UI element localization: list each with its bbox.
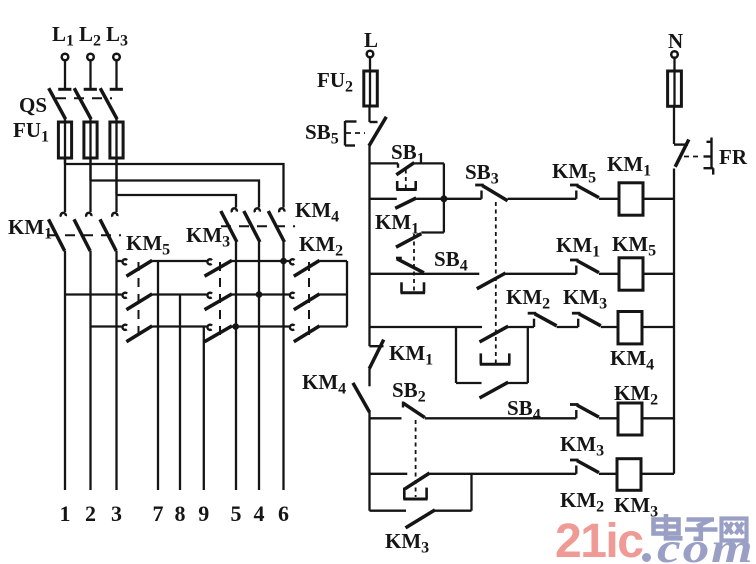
label KM2 aux (rung3) bbox=[506, 285, 550, 313]
contact KM1 aux (rail) bbox=[369, 340, 383, 369]
label KM1 (seal) bbox=[375, 210, 419, 238]
fuse FU2 bbox=[364, 71, 378, 106]
terminal L2 bbox=[84, 54, 97, 90]
label KM5 aux (rung1) bbox=[552, 159, 596, 187]
coil KM5 bbox=[619, 258, 643, 290]
wire N rail above FR bbox=[673, 106, 675, 144]
wire terminal 9 column bbox=[203, 327, 205, 491]
label SB3 bbox=[465, 160, 499, 188]
wire SB1 to seal node bbox=[414, 162, 444, 164]
wire SB3-3 to KM2 aux bbox=[508, 326, 534, 328]
wire C3 tap to KM5 pole1 bbox=[117, 260, 122, 262]
junction R3 x terminal-5 column bbox=[232, 323, 239, 330]
SB2 linkage bbox=[415, 420, 417, 497]
watermark dianziwang bbox=[654, 514, 747, 541]
label SB5 bbox=[305, 120, 339, 148]
svg-text:FR: FR bbox=[719, 145, 748, 169]
wire KM2 aux to coil KM3 bbox=[599, 473, 617, 475]
wire KM2 aux to KM3 aux bbox=[557, 326, 579, 328]
svg-text:com: com bbox=[657, 525, 755, 564]
label KM3 (power) bbox=[186, 223, 230, 251]
contact KM3 aux (rung4) bbox=[570, 405, 599, 419]
wire KM3 aux to coil KM4 bbox=[601, 326, 618, 328]
label QS bbox=[19, 93, 47, 117]
left rail lower bbox=[368, 412, 370, 511]
contact KM1 aux (seal) bbox=[395, 198, 416, 208]
label coil KM5 bbox=[612, 232, 656, 260]
wire rung1 from rail bbox=[370, 198, 397, 200]
svg-text:QS: QS bbox=[19, 93, 47, 117]
terminal label 3 bbox=[111, 501, 122, 526]
terminal label 9 bbox=[198, 501, 209, 526]
star-point bus bbox=[346, 261, 348, 327]
right rail bbox=[673, 169, 675, 474]
label SB1 bbox=[391, 140, 425, 168]
thermal relay FR (NC) bbox=[674, 138, 713, 175]
svg-text:6: 6 bbox=[278, 501, 289, 526]
coil KM4 bbox=[618, 312, 642, 344]
wire SB3-2 to KM1 aux bbox=[506, 273, 577, 275]
contactor KM3 pole 2 bbox=[205, 293, 233, 310]
fuse FU1 pole 1 bbox=[58, 119, 71, 164]
wire C2 to KM4 mid column bbox=[91, 158, 260, 208]
button SB3 contact 1 bbox=[475, 185, 507, 201]
label L1 L2 L3 bbox=[52, 22, 128, 50]
svg-text:9: 9 bbox=[198, 501, 209, 526]
label FU2 bbox=[317, 68, 353, 96]
contactor KM3 pole 3 bbox=[205, 325, 233, 342]
terminal L1 bbox=[58, 54, 71, 90]
button SB1 (NO) bbox=[396, 163, 417, 190]
contactor KM2 pole 3 bbox=[290, 325, 320, 342]
wire bypass bottom left bbox=[456, 382, 482, 384]
contact KM4 aux (rail) bbox=[353, 383, 370, 412]
junction R2 x terminal-4 column bbox=[256, 291, 263, 298]
button SB3 contact 3 bbox=[480, 326, 509, 342]
wire terminal 3 column bbox=[115, 251, 117, 490]
label KM2 aux (rung5) bbox=[560, 488, 604, 516]
label KM1 (power) bbox=[8, 215, 52, 243]
fuse FU1 pole 3 bbox=[110, 119, 123, 164]
KM5 linkage bbox=[138, 262, 140, 342]
label KM4 (power) bbox=[295, 198, 339, 226]
contact KM3 aux (rung3) bbox=[572, 313, 601, 327]
svg-text:3: 3 bbox=[111, 501, 122, 526]
label KM3 aux (rung4) bbox=[560, 432, 604, 460]
wire coil KM5 to N rail bbox=[643, 273, 674, 275]
svg-text:7: 7 bbox=[153, 501, 164, 526]
contact KM3 aux (seal) bbox=[406, 510, 436, 528]
wire KM3 seal to riser bbox=[435, 510, 472, 512]
svg-text:21ic: 21ic bbox=[555, 515, 643, 564]
wire rung5 to KM2 aux bbox=[430, 473, 577, 475]
contactor KM2 pole 1 bbox=[290, 259, 320, 276]
button SB5 (NC, in rail) bbox=[345, 117, 386, 146]
button SB4 contact (NO) bbox=[480, 382, 509, 398]
label coil KM4 bbox=[610, 346, 654, 374]
KM4 linkage bbox=[221, 225, 295, 227]
contact KM5 aux (rung1) bbox=[570, 185, 599, 199]
wire bypass right riser bbox=[527, 327, 529, 383]
contact KM2 aux (rung5) bbox=[570, 460, 599, 474]
label L bbox=[364, 28, 378, 52]
button SB4 (NC) bbox=[396, 234, 425, 293]
wire C1 tap to KM5 pole2 bbox=[65, 293, 122, 295]
terminal label 8 bbox=[175, 501, 186, 526]
contactor KM4 main pole 3 bbox=[268, 208, 284, 242]
watermark 21ic bbox=[555, 515, 643, 564]
contactor KM2 pole 2 bbox=[290, 293, 320, 310]
svg-text:2: 2 bbox=[85, 501, 96, 526]
wire rung4 from rail bbox=[370, 417, 402, 419]
label KM3 (seal) bbox=[385, 529, 429, 557]
contactor KM4 main pole 1 bbox=[221, 208, 237, 242]
wire SB1 branch from rail bbox=[370, 162, 399, 164]
wire R1 KM3 to KM2 bbox=[232, 260, 289, 262]
contactor KM5 pole 2 bbox=[123, 293, 153, 310]
wire KM3 aux to coil KM2 bbox=[599, 417, 618, 419]
terminal N (control) bbox=[671, 51, 678, 71]
wire R2 KM2 to star bus bbox=[320, 293, 347, 295]
contactor KM5 pole 1 bbox=[123, 259, 153, 276]
svg-text:N: N bbox=[668, 29, 683, 53]
wire R2 KM5 to KM3 bbox=[152, 293, 206, 295]
terminal label 4 bbox=[254, 501, 265, 526]
wire bypass left drop bbox=[455, 327, 457, 383]
fuse FU (N side) bbox=[668, 71, 682, 106]
wire seal node vertical bbox=[443, 163, 445, 232]
wire rail below FU2 bbox=[368, 106, 370, 122]
wire coil KM4 to N rail bbox=[642, 326, 674, 328]
coil KM3 bbox=[617, 459, 641, 491]
wire R3 KM5 to KM3 bbox=[152, 325, 206, 327]
terminal label 2 bbox=[85, 501, 96, 526]
wire KM1 aux to coil KM5 bbox=[599, 273, 619, 275]
svg-text:L: L bbox=[364, 28, 378, 52]
wire seal riser bbox=[470, 474, 472, 511]
wire terminal 2 column bbox=[89, 251, 91, 490]
svg-text:8: 8 bbox=[175, 501, 186, 526]
wire terminal 1 column bbox=[64, 251, 66, 490]
contact KM1 aux (rung2) bbox=[570, 260, 599, 274]
terminal label 6 bbox=[278, 501, 289, 526]
label coil KM3 bbox=[614, 493, 658, 521]
switch QS pole 1 blade bbox=[49, 88, 66, 119]
wire seal to node bbox=[416, 198, 444, 200]
wire terminal 5 column bbox=[235, 242, 237, 490]
switch QS pole 3 blade bbox=[100, 88, 117, 119]
KM3 linkage bbox=[219, 262, 221, 342]
contactor KM1 main pole 3 bbox=[100, 164, 117, 251]
button SB2 cap bbox=[403, 488, 427, 499]
contactor KM5 pole 3 bbox=[123, 325, 153, 342]
wire C2 tap to KM5 pole3 bbox=[91, 325, 122, 327]
wire KM5 aux to coil KM1 bbox=[599, 198, 619, 200]
switch QS linkage bbox=[56, 97, 112, 99]
label SB4 (NO) bbox=[507, 396, 541, 424]
contactor KM1 main pole 1 bbox=[49, 164, 66, 251]
label KM1 (rail) bbox=[389, 341, 433, 369]
wire coil KM1 to N rail bbox=[643, 198, 674, 200]
wire coil KM2 to N rail bbox=[642, 417, 674, 419]
wire rung2 from rail bbox=[370, 273, 480, 275]
svg-text:4: 4 bbox=[254, 501, 265, 526]
button SB2 contact 2 bbox=[405, 473, 430, 489]
button SB3 cap bbox=[480, 353, 511, 364]
label SB2 bbox=[392, 378, 426, 406]
contactor KM1 main pole 2 bbox=[74, 164, 91, 251]
wire terminal 7 column bbox=[157, 261, 159, 490]
left rail mid bbox=[368, 368, 370, 386]
wire R1 KM5 to KM3 bbox=[152, 260, 206, 262]
KM1 linkage bbox=[47, 234, 121, 236]
wire rung4 to KM3 aux bbox=[425, 417, 577, 419]
label KM2 (power) bbox=[299, 232, 343, 260]
label FR bbox=[719, 145, 748, 169]
wire rail bottom elbow bbox=[370, 510, 407, 512]
svg-text:5: 5 bbox=[231, 501, 242, 526]
label SB4 (NC) bbox=[434, 247, 468, 275]
KM2 linkage bbox=[308, 262, 310, 342]
wire R3 KM2 to star bus bbox=[320, 325, 347, 327]
wire bypass bottom right bbox=[508, 382, 528, 384]
wire coil KM3 to N rail bbox=[641, 473, 674, 475]
svg-text:1: 1 bbox=[60, 501, 71, 526]
coil KM2 bbox=[618, 403, 642, 435]
wire terminal 4 column bbox=[258, 242, 260, 490]
wire C1 to KM4 right column bbox=[65, 158, 284, 208]
button SB3 contact 2 bbox=[477, 273, 506, 289]
wire rung5 from rail bbox=[370, 473, 408, 475]
contact KM2 aux (rung3) bbox=[528, 313, 557, 327]
wire rung3 from rail bbox=[370, 326, 483, 328]
terminal label 1 bbox=[60, 501, 71, 526]
terminal label 7 bbox=[153, 501, 164, 526]
wire R1 KM2 to star bus bbox=[320, 260, 347, 262]
wire C3 to KM4 left column bbox=[117, 158, 237, 208]
button SB2 contact 1 bbox=[403, 402, 425, 418]
junction seal node bbox=[440, 195, 447, 202]
label KM3 aux (rung3) bbox=[563, 285, 607, 313]
SB3 linkage bbox=[495, 202, 497, 363]
wire SB3 to KM5 aux bbox=[508, 198, 577, 200]
coil KM1 bbox=[619, 183, 643, 215]
terminal L3 bbox=[110, 54, 123, 90]
wire node to SB3 bbox=[444, 198, 482, 200]
contactor KM4 main pole 2 bbox=[244, 208, 260, 242]
wire terminal 6 column bbox=[282, 242, 284, 490]
label coil KM1 bbox=[607, 152, 651, 180]
junction R1 x terminal-6 column bbox=[280, 258, 287, 265]
label KM4 (rail) bbox=[302, 370, 346, 398]
label KM1 aux (rung2) bbox=[556, 233, 600, 261]
wire R3 KM3 to KM2 bbox=[232, 325, 289, 327]
label N bbox=[668, 29, 683, 53]
wire node232 bbox=[421, 231, 444, 233]
wire terminal 8 column bbox=[179, 295, 181, 491]
label KM5 (power) bbox=[126, 231, 170, 259]
label FU1 bbox=[13, 118, 49, 146]
left rail upper bbox=[368, 146, 370, 347]
label coil KM2 bbox=[614, 381, 658, 409]
terminal L (control) bbox=[367, 51, 374, 71]
watermark .com bbox=[642, 525, 755, 564]
terminal label 5 bbox=[231, 501, 242, 526]
wire R2 KM3 to KM2 bbox=[232, 293, 289, 295]
contactor KM3 pole 1 bbox=[205, 259, 233, 276]
switch QS pole 2 blade bbox=[74, 88, 91, 119]
fuse FU1 pole 2 bbox=[84, 119, 97, 164]
